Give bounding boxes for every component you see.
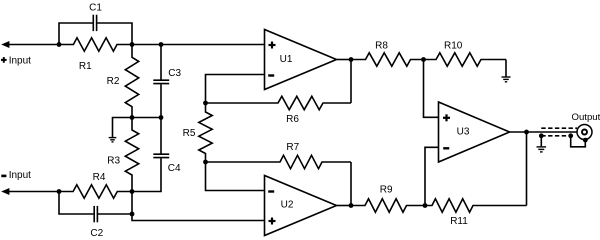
- wire C2 branch: [59, 192, 93, 215]
- svg-text:R2: R2: [107, 76, 120, 87]
- resistor R5: [199, 103, 212, 162]
- svg-text:R6: R6: [286, 114, 299, 125]
- svg-text:U2: U2: [281, 200, 294, 211]
- capacitor C2: [93, 206, 95, 222]
- resistor R4: [59, 185, 132, 198]
- wire C4 leads: [160, 118, 162, 154]
- wire R6 to U1 out: [350, 60, 352, 104]
- node C3 top tap: [159, 42, 164, 47]
- svg-text:R9: R9: [380, 184, 393, 195]
- resistor R1: [59, 38, 132, 51]
- op-amp U2: [265, 176, 337, 236]
- label + Input: [1, 57, 7, 63]
- wire top rail to U1+: [132, 44, 265, 46]
- node R1-C1-R2 right: [130, 42, 135, 47]
- wire ground rail: [113, 118, 162, 138]
- node R9-R11 / U3 inverting: [423, 203, 428, 208]
- svg-text:R8: R8: [375, 40, 388, 51]
- capacitor C3: [153, 79, 169, 81]
- svg-text:R11: R11: [450, 216, 468, 227]
- wire + input shaft: [8, 44, 59, 46]
- node R5-R7 / U2 inverting: [203, 160, 208, 165]
- svg-text:C3: C3: [168, 68, 181, 79]
- node R2-R3 ground rail: [130, 115, 135, 120]
- node connector shell: [583, 138, 588, 143]
- wire U2 - input: [206, 162, 265, 191]
- wire R7 to U2 out: [350, 162, 352, 206]
- op-amp U3: [439, 102, 510, 162]
- svg-text:C2: C2: [90, 228, 103, 239]
- svg-text:R1: R1: [79, 61, 92, 72]
- resistor R6: [206, 96, 352, 109]
- svg-text:Input: Input: [9, 56, 31, 67]
- wire to U3 - input: [425, 147, 439, 205]
- resistor R9: [351, 199, 425, 212]
- capacitor C4: [153, 153, 169, 155]
- connector J1 pin: [582, 130, 587, 135]
- wire to U3 + input: [424, 60, 439, 118]
- node shield ground tap: [539, 133, 544, 138]
- svg-text:U3: U3: [457, 126, 470, 137]
- wire U1 - input: [206, 75, 265, 104]
- ground G1: [109, 138, 117, 142]
- svg-text:R10: R10: [444, 40, 463, 51]
- resistor R3: [125, 118, 138, 192]
- wire U2 output: [337, 205, 352, 207]
- ground G2: [502, 77, 511, 82]
- node + input / R1-C1 left: [57, 42, 62, 47]
- node R8-R10 / U3 noninverting: [421, 57, 426, 62]
- svg-text:R5: R5: [183, 128, 196, 139]
- wire C3 leads: [160, 45, 162, 80]
- node U3 output / R11 feedback: [524, 130, 529, 135]
- svg-text:C4: C4: [168, 163, 181, 174]
- + input arrow: [1, 41, 9, 48]
- resistor R10: [424, 53, 507, 66]
- node shield to shell: [568, 133, 573, 138]
- wire U3 feedback vertical: [526, 132, 528, 206]
- node U1 output / R6-R8: [349, 57, 354, 62]
- wire shield to shell: [571, 136, 586, 147]
- svg-text:C1: C1: [89, 3, 102, 14]
- svg-text:Output: Output: [572, 112, 600, 123]
- resistor R7: [206, 155, 352, 168]
- node R4-R3-C4 right: [130, 189, 135, 194]
- wire C1 branch: [59, 23, 93, 45]
- svg-text:R3: R3: [107, 155, 120, 166]
- resistor R2: [125, 45, 138, 118]
- resistor R8: [351, 53, 424, 66]
- svg-text:R7: R7: [286, 142, 299, 153]
- shield dashed bottom: [541, 135, 570, 137]
- wire U3 output: [510, 131, 583, 133]
- node U2 output / R7-R9: [349, 203, 354, 208]
- capacitor C1: [92, 15, 94, 31]
- connector J1 outer: [577, 125, 592, 140]
- shield dashed top: [541, 127, 577, 129]
- wire to U2 + input: [132, 192, 265, 221]
- svg-text:R4: R4: [93, 172, 106, 183]
- node C2 right: [130, 212, 135, 217]
- wire ground stub shield: [540, 136, 542, 147]
- wire ground stub R10: [505, 60, 507, 77]
- op-amp U1: [265, 30, 337, 90]
- node U1 inverting / R5-R6: [203, 101, 208, 106]
- wire - input shaft: [8, 191, 59, 193]
- wire U1 output: [337, 59, 352, 61]
- node - input / R4-C2 left: [57, 189, 62, 194]
- ground G3: [537, 147, 547, 152]
- node C3-C4 ground rail: [159, 115, 164, 120]
- resistor R11: [425, 199, 527, 212]
- svg-text:U1: U1: [280, 54, 293, 65]
- - input arrow: [1, 188, 9, 195]
- label - Input: [1, 175, 6, 178]
- svg-text:Input: Input: [9, 170, 31, 181]
